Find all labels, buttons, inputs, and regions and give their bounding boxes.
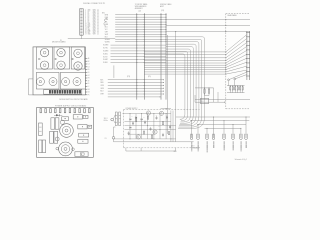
- mounting hole lower right: [72, 148, 75, 151]
- junction rear panel row 9: [225, 71, 226, 72]
- junction jack J4: [213, 117, 214, 118]
- svg-text:BLU: BLU: [105, 27, 108, 29]
- junction tap B: [175, 31, 176, 32]
- svg-text:N4: N4: [88, 92, 90, 94]
- svg-text:W-GRY: W-GRY: [103, 59, 108, 61]
- diode D1 bar: [130, 119, 132, 120]
- node end group3 row 2: [163, 82, 164, 83]
- DIP switch 1 lead: [49, 93, 51, 95]
- node end group3 row 6: [163, 94, 164, 95]
- capacitor C7 plate2: [162, 134, 164, 136]
- transistor Q3: [153, 130, 157, 134]
- wire group3 row 3: [108, 84, 164, 86]
- wire drop to jack J3: [206, 128, 208, 135]
- mode board pin 4: [85, 66, 87, 68]
- junction jack J1: [191, 120, 192, 121]
- mode board outline: [33, 47, 85, 95]
- capacitor C1 plate1: [132, 122, 134, 124]
- bundle wire bottom tail 8: [180, 118, 182, 120]
- svg-text:K1: K1: [88, 83, 90, 85]
- component block 6: [78, 139, 88, 143]
- node bank R1: [230, 85, 231, 86]
- junction rear panel row 6: [225, 65, 226, 66]
- junction supply: [153, 113, 154, 114]
- connector P1 pin 10: [80, 22, 82, 25]
- component block 7: [75, 152, 88, 157]
- svg-text:B2: B2: [88, 61, 90, 63]
- DIP switch 10 lead: [71, 93, 73, 95]
- junction rear panel row 3: [225, 57, 226, 58]
- node bank R3: [235, 85, 236, 86]
- capacitor C4 plate2: [156, 117, 158, 119]
- rotary switch S1 shaft: [43, 51, 46, 54]
- board top pin 1: [40, 109, 42, 113]
- svg-text:(P5): (P5): [148, 76, 151, 78]
- junction supply: [166, 113, 167, 114]
- toroid transformer T2 inner: [65, 129, 68, 132]
- component K1 dot: [65, 118, 66, 119]
- diode CR1 bar: [58, 114, 60, 116]
- wire rail right: [195, 98, 250, 100]
- diag wire A: [229, 72, 247, 80]
- bundle wire bottom tail 4: [180, 124, 188, 126]
- diode CR1: [56, 114, 59, 116]
- component block 7 inner: [80, 153, 84, 155]
- edge connector pin 7: [246, 58, 250, 60]
- jack J1 label (rotated text): [191, 142, 193, 152]
- DIP switch 1: [49, 90, 51, 93]
- supply horizontal wire y=129.6: [124, 129, 175, 131]
- jack J4 pin: [213, 134, 215, 138]
- bundle wire bottom tail 6: [181, 121, 184, 123]
- rotary switch S2: [40, 61, 48, 69]
- component block 5: [79, 133, 89, 137]
- connector P1 body: [79, 8, 83, 35]
- supply vertical wire x=153.9: [153, 114, 155, 139]
- wire from P1 area to ladder: [68, 38, 115, 40]
- capacitor C7 plate1: [162, 134, 164, 136]
- node end group3 row 1: [163, 79, 164, 80]
- wire group2 row 7: [111, 62, 167, 64]
- junction rear panel row 1: [225, 51, 226, 52]
- chassis boundary dashed top: [226, 13, 250, 15]
- wire group2 row 1: [111, 44, 167, 46]
- wire row to rear panel 3: [144, 57, 226, 59]
- jack J7 label (rotated text): [240, 142, 242, 152]
- resistor Rp4: [168, 132, 169, 135]
- mode board pin 2: [85, 60, 87, 62]
- svg-text:F6: F6: [88, 72, 90, 74]
- node end group3 row 4: [163, 88, 164, 89]
- DIP switch 11 lead: [74, 93, 76, 95]
- junction rear panel row 10: [225, 74, 226, 75]
- svg-text:C3: C3: [88, 64, 90, 66]
- capacitor C6 plate1: [169, 126, 171, 128]
- svg-text:BLU: BLU: [100, 91, 103, 93]
- transformer T1 secondary: [119, 112, 121, 126]
- wire group3 row 1: [108, 79, 164, 81]
- connector P1 pin 5: [80, 15, 82, 18]
- supply bottom rail 1: [114, 141, 194, 143]
- component block 3 dot: [82, 126, 83, 127]
- bundle wire bottom tail 2: [179, 126, 192, 128]
- junction on dashed boundary 3: [225, 31, 226, 32]
- potentiometer VR2: [49, 78, 57, 86]
- connector P1 pin 7: [80, 18, 82, 21]
- wire to T1 bottom: [114, 126, 116, 128]
- resistor bank R3: [235, 87, 236, 90]
- junction rail: [224, 102, 225, 103]
- wire group3 row 6: [108, 93, 164, 95]
- board top pin 8: [74, 109, 76, 113]
- resistor Rp5: [143, 131, 144, 134]
- edge connector column right: [248, 31, 250, 80]
- wire vertical tap B: [175, 32, 177, 142]
- wire P1 shield lead: [81, 35, 83, 38]
- capacitor C5 plate1: [166, 116, 168, 118]
- junction supply: [170, 138, 171, 139]
- connector P1 pin 15: [80, 30, 82, 33]
- output jack J4: [212, 134, 214, 140]
- T1 primary winding line: [115, 121, 117, 123]
- jack J5 pin: [223, 134, 225, 138]
- node bank R4: [237, 85, 238, 86]
- DIP switch 9 lead: [69, 93, 71, 95]
- bundle wire bottom tail 1: [178, 127, 193, 129]
- power supply dashed box bottom: [123, 147, 200, 149]
- connector P1 pin 9: [80, 21, 82, 24]
- wire row to rear panel 1: [144, 51, 226, 53]
- junction rear panel row 7: [225, 67, 226, 68]
- bundle wire top row 3: [166, 41, 197, 43]
- rotary switch S3: [57, 48, 65, 56]
- connector P4 left column: [160, 13, 162, 99]
- component block 1 dot: [77, 116, 78, 117]
- rail top of resistor bank: [227, 85, 245, 87]
- fan wire 2: [226, 38, 247, 54]
- supply horizontal wire y=125.6: [124, 125, 175, 127]
- potentiometer VR3 shaft: [64, 80, 66, 82]
- chassis boundary dashed lower: [226, 108, 250, 110]
- supply vertical wire x=160.0: [159, 114, 161, 139]
- supply vertical wire x=173.0: [172, 111, 174, 142]
- bundle vertical 6: [190, 51, 192, 115]
- output jack J2: [197, 134, 199, 140]
- potentiometer VR1 shaft: [39, 80, 41, 82]
- mode board pin 3: [85, 63, 87, 65]
- fan wire 9: [226, 66, 247, 72]
- bundle vertical 4: [195, 46, 197, 116]
- switch box S1: [37, 47, 53, 69]
- switch adjust arrow: [55, 58, 58, 59]
- toroid transformer T3 inner: [64, 147, 67, 150]
- component block 4: [88, 125, 92, 128]
- supply vertical wire x=130.0: [129, 114, 131, 139]
- edge connector pin 4: [246, 45, 250, 47]
- capacitor C5 plate2: [166, 117, 168, 119]
- output jack J5: [223, 134, 225, 140]
- potentiometer VR3: [62, 78, 70, 86]
- board top pin 5: [59, 109, 61, 113]
- toroid transformer T2 middle: [62, 126, 70, 134]
- rail2 left drop: [125, 148, 127, 151]
- svg-text:(P3): (P3): [127, 76, 130, 78]
- DIP switch 12: [77, 90, 79, 93]
- DIP switch 8: [67, 90, 69, 93]
- svg-text:W-BLK: W-BLK: [103, 62, 108, 64]
- diag wire B: [236, 75, 247, 79]
- wire AC to T1 lower: [113, 120, 115, 123]
- svg-text:MODE BOARD: MODE BOARD: [52, 40, 66, 43]
- DIP switch strip outline: [44, 90, 82, 95]
- DIP switch 6: [62, 90, 64, 93]
- junction supply: [160, 129, 161, 130]
- fan wire 5: [226, 50, 247, 63]
- component block 7 dot: [81, 154, 82, 155]
- fan wire 1: [226, 35, 247, 52]
- edge connector pin 5: [246, 49, 250, 51]
- bundle vertical 2: [201, 41, 203, 116]
- capacitor C12 tall: [42, 140, 45, 153]
- bundle wire top row 7: [166, 51, 186, 53]
- mounting hole upper: [60, 120, 64, 124]
- node bank R2: [232, 85, 233, 86]
- wire drop to jack J8: [245, 117, 247, 135]
- svg-text:(P4): (P4): [161, 10, 164, 12]
- jack J2 label (rotated text): [197, 142, 199, 152]
- DIP switch 5: [59, 90, 61, 93]
- resistor R at 204.5: [204, 89, 205, 93]
- edge connector pin 9: [246, 66, 250, 68]
- connector P1 pin 17: [80, 33, 82, 36]
- mode board pin 12: [85, 88, 87, 90]
- junction supply: [130, 138, 131, 139]
- wire circle A down: [228, 81, 230, 86]
- rotary switch S6 shaft: [77, 65, 80, 68]
- wire group3 row 2: [108, 82, 164, 84]
- jack J8 label (rotated text): [245, 142, 247, 149]
- output jack J6: [232, 134, 234, 140]
- junction jack J5: [224, 120, 225, 121]
- capacitor C11 tall: [39, 140, 42, 153]
- rail resistor pair: [195, 87, 214, 89]
- wire drop to jack J6: [232, 125, 234, 135]
- node end group3 row 5: [163, 91, 164, 92]
- connector P1 pin 13: [80, 27, 82, 30]
- DIP switch 7: [64, 90, 66, 93]
- rotary switch S1: [40, 48, 48, 56]
- DIP switch 7 lead: [64, 93, 66, 95]
- output jack J3: [206, 134, 208, 140]
- output rail 1: [176, 116, 250, 118]
- wire row 12: [115, 41, 166, 43]
- wire row to rear panel 10: [144, 73, 226, 75]
- wire rail right 2: [195, 101, 225, 103]
- resistor bank R4: [237, 87, 238, 90]
- bundle wire top row 1: [166, 36, 202, 38]
- switch box S3: [71, 47, 84, 69]
- resistor bank R2: [232, 87, 233, 90]
- svg-text:D4: D4: [88, 66, 90, 68]
- svg-text:H8: H8: [88, 78, 90, 80]
- resistor Rp6: [151, 135, 152, 138]
- rotary switch S4 shaft: [60, 64, 63, 67]
- edge connector pin 11: [246, 75, 250, 77]
- wire link vertical: [113, 65, 115, 78]
- capacitor C14: [55, 118, 59, 129]
- connector P1 pin 16: [80, 31, 82, 34]
- fan wire 3: [226, 42, 247, 57]
- node end group3 row 3: [163, 85, 164, 86]
- component block 2 dot: [85, 116, 86, 117]
- supply horizontal wire y=121.6: [124, 121, 171, 123]
- junction on dashed boundary 2: [225, 25, 226, 26]
- T1 primary winding line: [115, 114, 117, 116]
- jack J8 pin: [245, 134, 247, 138]
- connector circle B: [234, 78, 236, 80]
- wire group2 row 3: [111, 50, 167, 52]
- svg-text:W-BRN: W-BRN: [105, 39, 110, 41]
- mode board pin 10: [85, 83, 87, 85]
- svg-text:WHT: WHT: [105, 34, 108, 36]
- mode board pin 7: [85, 74, 87, 76]
- jack J3 label (rotated text): [206, 142, 208, 153]
- diode D4: [141, 119, 143, 120]
- capacitor C6 plate2: [169, 126, 171, 128]
- diode D2 bar: [136, 117, 138, 118]
- rotary switch S6: [74, 62, 82, 70]
- svg-text:F1: F1: [105, 138, 107, 140]
- wire vertical 213: [213, 88, 215, 102]
- capacitor C8 plate2: [128, 133, 130, 135]
- svg-text:W-ORN: W-ORN: [103, 45, 108, 47]
- toroid transformer T3 middle: [61, 145, 69, 153]
- wire lower AC terminal up: [113, 127, 115, 137]
- svg-text:60 Hz: 60 Hz: [104, 120, 108, 122]
- wire row 11: [115, 38, 166, 40]
- wire P4 to rear panel 2: [166, 25, 250, 27]
- wire vertical tap A: [166, 35, 168, 134]
- potentiometer VR2 shaft: [52, 80, 54, 82]
- connector P1 pin 12: [80, 25, 82, 28]
- junction on dashed boundary 1: [225, 19, 226, 20]
- wire group2 row 6: [111, 59, 167, 61]
- bundle wire top row 6: [166, 48, 188, 50]
- resistor bank R1: [230, 87, 231, 90]
- svg-text:POWER SUPPLY CIRCUIT BOARD: POWER SUPPLY CIRCUIT BOARD: [55, 105, 87, 108]
- resistor bank R5: [240, 87, 241, 90]
- DIP switch 12 lead: [76, 93, 78, 95]
- output jack J1: [190, 134, 192, 140]
- component block K1: [62, 117, 69, 121]
- supply horizontal wire y=138.9: [114, 138, 176, 140]
- wire row to rear panel 7: [144, 66, 226, 68]
- junction supply: [141, 113, 142, 114]
- chassis boundary dashed vertical: [225, 14, 227, 109]
- capacitor C3 plate1: [150, 128, 152, 130]
- capacitor C2 plate2: [144, 122, 146, 124]
- junction jack J8: [246, 117, 247, 118]
- rail2 right drop: [174, 148, 176, 151]
- wire circle B down: [234, 80, 236, 86]
- capacitor C4 plate1: [156, 117, 158, 119]
- mode board pin 8: [85, 77, 87, 79]
- bundle wire top row 2: [166, 38, 200, 40]
- toroid transformer T2 outer: [60, 124, 74, 138]
- power circuit board outline: [37, 108, 94, 158]
- junction supply: [147, 125, 148, 126]
- junction supply: [130, 113, 131, 114]
- node bank R5: [240, 85, 241, 86]
- wire vertical 218: [217, 92, 219, 102]
- fan wire 10: [226, 70, 247, 74]
- connector P1 pin 2: [80, 10, 82, 13]
- rotary switch S3 shaft: [60, 51, 63, 54]
- capacitor C8 plate1: [128, 132, 130, 134]
- wire row to rear panel 2: [144, 54, 226, 56]
- svg-text:WHT: WHT: [93, 34, 96, 36]
- wire join resistor pair: [205, 95, 210, 97]
- wire row 5: [115, 24, 166, 26]
- wire drop to jack J4: [213, 117, 215, 135]
- wire P4 to rear panel 1: [166, 18, 250, 20]
- jack J6 pin: [232, 134, 234, 138]
- edge connector pin 3: [246, 40, 250, 42]
- wire to board bottom corner: [29, 94, 34, 96]
- connector circle A: [228, 79, 230, 81]
- DIP switch 4: [57, 90, 59, 93]
- connector P1 pin 14: [80, 28, 82, 31]
- svg-text:GRN: GRN: [100, 88, 103, 90]
- wire row to rear panel 6: [144, 64, 226, 66]
- connector P1 pin 3: [80, 12, 82, 15]
- bundle vertical 3: [198, 44, 200, 116]
- svg-text:GND: GND: [88, 34, 91, 36]
- diode D3: [130, 127, 132, 128]
- junction supply right: [166, 108, 167, 109]
- junction rear panel row 5: [225, 62, 226, 63]
- node bank R6: [242, 85, 243, 86]
- resistor bank R6: [242, 87, 243, 90]
- resistor Rp1: [136, 118, 137, 121]
- supply vertical wire x=170.9: [170, 111, 172, 142]
- supply vertical wire x=141.6: [141, 114, 143, 139]
- wire row 9: [115, 33, 166, 35]
- wire left vertical: [28, 79, 30, 95]
- output jack J8: [245, 134, 247, 140]
- connector P1 pin 4: [80, 13, 82, 16]
- DIP switch 11: [74, 90, 76, 93]
- svg-text:W-BLU: W-BLU: [103, 53, 108, 55]
- connector P1 pin 8: [80, 19, 82, 22]
- wire row 6: [115, 26, 166, 28]
- output rail 3: [197, 124, 246, 126]
- wire row 8: [115, 31, 166, 33]
- bundle wire bottom tail 5: [180, 122, 186, 124]
- wire row to rear panel 4: [144, 60, 226, 62]
- T1 primary winding line: [115, 118, 117, 120]
- node end group3 row 7: [160, 96, 161, 97]
- svg-text:GRY: GRY: [105, 32, 108, 34]
- component block 4 dot: [89, 126, 90, 127]
- rail2 tick: [140, 148, 142, 151]
- capacitor C2 plate1: [144, 121, 146, 123]
- jack J6 label (rotated text): [232, 142, 234, 151]
- DIP switch 3 lead: [54, 93, 56, 95]
- board top pin 4: [55, 109, 57, 113]
- wire drop to jack J5: [223, 121, 225, 135]
- junction jack J3: [207, 128, 208, 129]
